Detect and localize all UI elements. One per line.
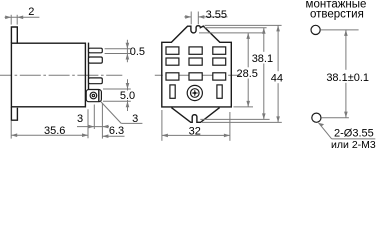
side view bottom foot [11,107,17,120]
dimension 6.3 [102,104,124,139]
leader to bottom hole [319,123,376,139]
contact slots row 2 [166,58,226,65]
svg-text:32: 32 [189,125,201,137]
dimension 3.55 (top notch) [184,9,227,24]
dimension 28.5 [236,33,257,107]
front view body outline [162,26,232,107]
dimension 2 (top tab) [5,6,40,25]
dimension 38.1±0.1 [326,30,369,118]
pin 1 [89,48,103,53]
pin 3 [89,78,103,84]
dimension 44 [271,25,283,122]
svg-text:38.1±0.1: 38.1±0.1 [326,72,369,84]
svg-text:28.5: 28.5 [236,68,257,80]
center screw [187,85,202,100]
svg-text:отверстия: отверстия [310,8,364,20]
hold-down clip body [86,90,101,102]
svg-text:6.3: 6.3 [109,125,124,137]
mounting hole bottom [312,113,349,122]
mounting holes label [306,0,367,20]
dimension 35.6 [11,109,88,138]
leader 3 (clip plate thickness) [101,102,143,125]
svg-text:или 2-М3: или 2-М3 [331,139,376,151]
dimension 3 (clip pin offset) [77,105,109,130]
svg-text:3.55: 3.55 [206,9,227,21]
vertical slots row 4 [170,85,222,98]
dimension 32 [162,110,230,141]
contact slots row 1 [166,47,226,54]
svg-text:3: 3 [77,113,83,125]
svg-text:5.0: 5.0 [120,90,135,102]
clip screw circle [90,92,97,99]
side view centerline [0,74,122,76]
dimension 5.0 (clip height) [103,79,136,111]
svg-text:3: 3 [132,113,138,125]
front view bottom mount trapezoid [171,108,219,123]
dimension 38.1 [252,28,273,120]
svg-text:38.1: 38.1 [252,53,273,65]
svg-text:0.5: 0.5 [130,46,145,58]
side view terminal plate [88,43,90,90]
side view body [11,43,85,107]
front view centerline [155,74,241,76]
hole size label [331,128,376,151]
svg-text:2: 2 [28,6,34,18]
dimension 0.5 (pin thickness) [105,40,145,62]
svg-text:44: 44 [271,72,283,84]
svg-text:35.6: 35.6 [44,125,65,137]
contact slots row 3 [166,73,226,80]
side view top tab [11,27,17,43]
mounting hole top [311,25,359,34]
svg-text:2-Ø3.55: 2-Ø3.55 [334,128,374,140]
extension lines right of front view [199,25,282,122]
pin 2 [89,57,103,63]
